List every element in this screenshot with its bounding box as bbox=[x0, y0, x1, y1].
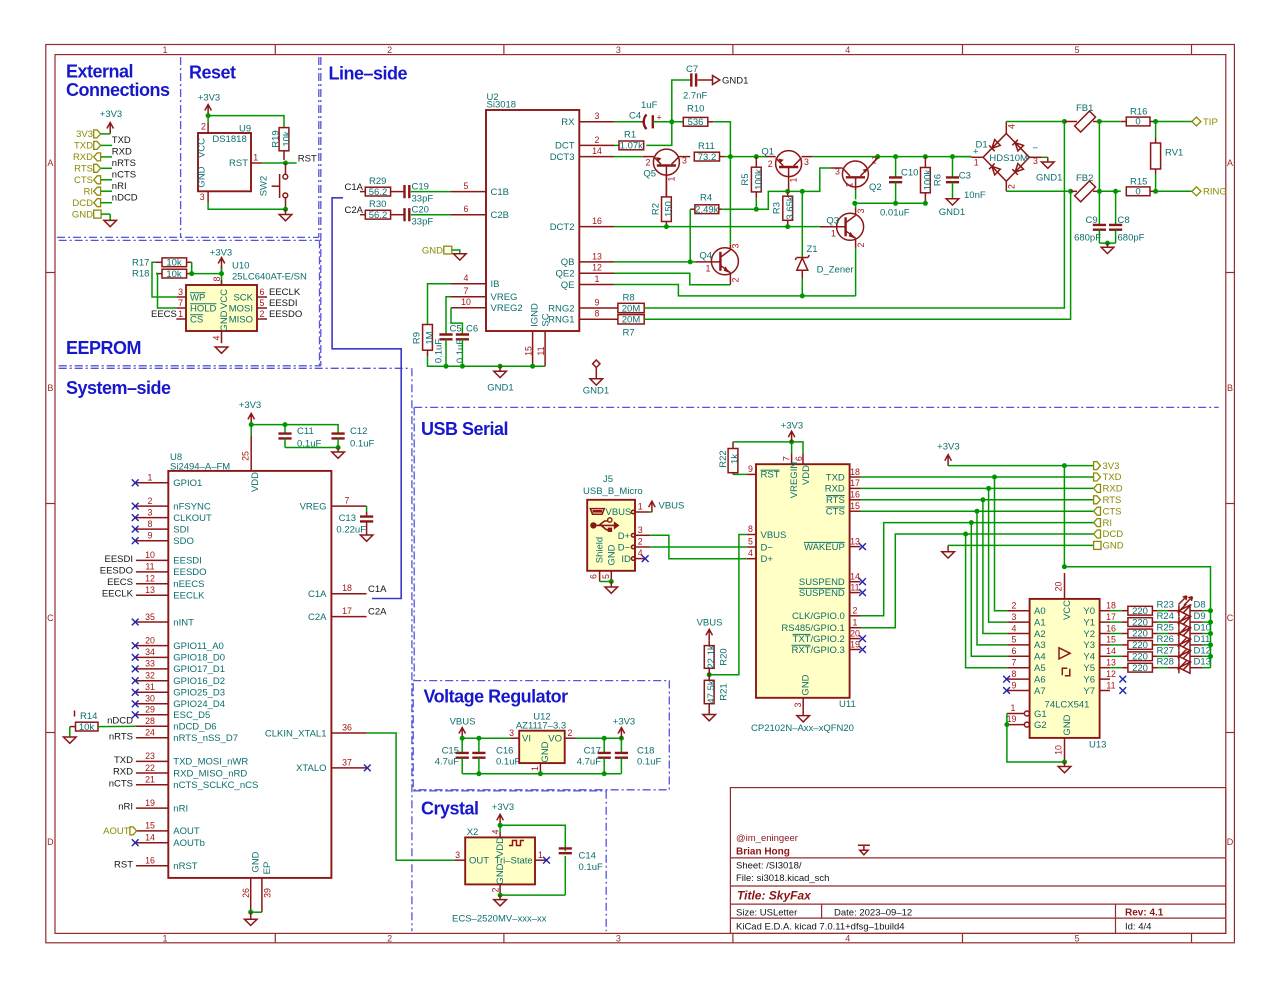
wire U8 VREG to C13 bbox=[366, 506, 368, 512]
svg-text:Q5: Q5 bbox=[643, 169, 656, 180]
svg-text:TXD: TXD bbox=[74, 141, 93, 152]
svg-text:RXD: RXD bbox=[113, 767, 133, 778]
svg-text:3: 3 bbox=[638, 525, 643, 535]
svg-text:RI: RI bbox=[1103, 518, 1113, 529]
svg-text:Q4: Q4 bbox=[699, 251, 712, 262]
capacitor C7 2.7nF bbox=[683, 64, 713, 102]
svg-text:Shield: Shield bbox=[595, 537, 606, 563]
wire bundle drop to U13 bbox=[966, 534, 1008, 668]
power +3V3 (external connections) bbox=[100, 109, 122, 134]
svg-text:G1: G1 bbox=[1034, 709, 1047, 720]
wire U2 IB to R9 bbox=[428, 284, 452, 325]
wire Q1 collector to Q2/C10 row bbox=[812, 156, 971, 158]
wire U2 DCT3 main row bbox=[614, 156, 642, 158]
U8 pin 8 SDI bbox=[132, 519, 189, 536]
wire VBUS rail to U12 VI bbox=[462, 738, 510, 753]
svg-text:SCK: SCK bbox=[233, 292, 253, 303]
svg-text:7: 7 bbox=[464, 286, 469, 296]
U8 pin 37 XTALO bbox=[296, 757, 371, 774]
wire U2 DCT to R1 bbox=[614, 144, 619, 146]
svg-text:EESDO: EESDO bbox=[100, 565, 133, 576]
svg-text:DS1818: DS1818 bbox=[212, 134, 246, 145]
svg-text:GND: GND bbox=[495, 863, 506, 884]
svg-text:GND: GND bbox=[251, 851, 262, 872]
svg-text:R20: R20 bbox=[719, 648, 730, 665]
svg-text:536: 536 bbox=[688, 117, 704, 128]
svg-text:GPIO17_D1: GPIO17_D1 bbox=[173, 664, 225, 675]
U8 pin 7 VREG bbox=[300, 496, 367, 513]
wire R8 to TIP rail bbox=[644, 122, 1064, 309]
U8 pin 34 GPIO18_D0 bbox=[132, 647, 225, 664]
svg-text:R9: R9 bbox=[412, 332, 423, 344]
svg-text:Y3: Y3 bbox=[1083, 640, 1095, 651]
resistor R24 220 bbox=[1110, 611, 1174, 628]
svg-text:TXD: TXD bbox=[826, 472, 845, 483]
svg-text:File: si3018.kicad_sch: File: si3018.kicad_sch bbox=[736, 873, 829, 884]
wire C9/C8 to ground bbox=[1099, 242, 1115, 244]
svg-text:+3V3: +3V3 bbox=[239, 400, 261, 411]
svg-text:0.1uF: 0.1uF bbox=[637, 757, 661, 768]
svg-text:6: 6 bbox=[794, 456, 804, 461]
svg-text:15: 15 bbox=[1106, 635, 1116, 645]
svg-text:R25: R25 bbox=[1157, 623, 1174, 634]
svg-text:VCC: VCC bbox=[219, 289, 230, 309]
wire from label TXD bbox=[101, 144, 112, 146]
svg-text:Q1: Q1 bbox=[761, 147, 774, 158]
svg-text:1: 1 bbox=[974, 158, 979, 168]
svg-text:nDCD: nDCD bbox=[107, 716, 133, 727]
wire U2 VREG to C5 bbox=[446, 297, 451, 335]
svg-text:nINT: nINT bbox=[173, 617, 194, 628]
svg-text:WP: WP bbox=[190, 292, 205, 303]
svg-text:Connections: Connections bbox=[66, 80, 170, 100]
svg-text:7: 7 bbox=[781, 456, 791, 461]
svg-text:RXD: RXD bbox=[825, 484, 845, 495]
wire R15 to RING bbox=[1156, 190, 1192, 192]
svg-text:Z1: Z1 bbox=[807, 244, 818, 255]
resistor R8 20M bbox=[614, 292, 644, 314]
U8 pin 17 C2A bbox=[308, 606, 387, 623]
svg-text:R30: R30 bbox=[369, 199, 386, 210]
svg-text:5: 5 bbox=[1074, 45, 1079, 55]
svg-text:D12: D12 bbox=[1194, 645, 1211, 656]
power +3V3 (crystal) bbox=[492, 802, 514, 825]
svg-text:5: 5 bbox=[748, 537, 753, 547]
hierarchical label GND (line-side) bbox=[422, 245, 452, 256]
svg-text:nRTS: nRTS bbox=[109, 731, 133, 742]
IC U12 AZ1117-3.3 bbox=[509, 712, 576, 774]
svg-text:1: 1 bbox=[178, 309, 183, 319]
svg-text:A0: A0 bbox=[1034, 606, 1046, 617]
svg-text:EESDI: EESDI bbox=[269, 298, 298, 309]
svg-text:C3: C3 bbox=[959, 171, 971, 182]
svg-text:GND: GND bbox=[1062, 714, 1073, 735]
capacitor C13 0.22uF bbox=[336, 512, 373, 536]
svg-text:10k: 10k bbox=[79, 722, 95, 733]
svg-text:1: 1 bbox=[162, 45, 167, 55]
crystal oscillator X2 ECS-2520MV bbox=[452, 827, 550, 925]
wire D11 cathode to rail bbox=[1203, 644, 1211, 646]
wire C11/C12 bottoms bbox=[285, 447, 338, 449]
wire +3V3 to VDD/C11/C12 bbox=[251, 425, 338, 436]
svg-text:2: 2 bbox=[595, 135, 600, 145]
svg-text:Sheet: /SI3018/: Sheet: /SI3018/ bbox=[736, 861, 802, 872]
ground (reset) bbox=[279, 209, 292, 221]
svg-text:EECLK: EECLK bbox=[102, 589, 134, 600]
wire Q3 collector up bbox=[855, 203, 857, 207]
U8 pin 29 ESC_D5 bbox=[132, 705, 210, 722]
svg-text:16: 16 bbox=[1106, 623, 1116, 633]
svg-text:1: 1 bbox=[706, 264, 711, 274]
resistor R2 150 bbox=[651, 176, 675, 227]
svg-text:C2A: C2A bbox=[368, 607, 387, 618]
svg-text:4: 4 bbox=[491, 829, 501, 834]
hierarchical label TXD (usb serial) bbox=[1094, 472, 1122, 483]
svg-text:2: 2 bbox=[1007, 184, 1017, 189]
svg-text:R26: R26 bbox=[1157, 634, 1174, 645]
resistor R17 10k bbox=[132, 257, 192, 268]
wire +3V3 to U9/R19 bbox=[208, 116, 284, 128]
svg-text:1: 1 bbox=[530, 766, 540, 771]
svg-text:GPIO25_D3: GPIO25_D3 bbox=[173, 688, 225, 699]
wire C3 row to D1 + pin bbox=[953, 156, 972, 158]
capacitor C8 680pF bbox=[1109, 189, 1145, 244]
svg-text:Y5: Y5 bbox=[1083, 663, 1095, 674]
svg-text:2.7nF: 2.7nF bbox=[683, 91, 707, 102]
wire R24 to D9 bbox=[1158, 621, 1169, 623]
svg-text:9: 9 bbox=[1012, 680, 1017, 690]
svg-text:RST: RST bbox=[298, 153, 317, 164]
svg-text:CP2102N–Axx–xQFN20: CP2102N–Axx–xQFN20 bbox=[751, 723, 854, 734]
wire G1/G2 to GND pin 10 bbox=[1007, 714, 1065, 763]
U8 pin 12 nEECS bbox=[107, 574, 204, 591]
svg-text:12: 12 bbox=[1106, 669, 1116, 679]
svg-text:TXD: TXD bbox=[114, 755, 133, 766]
svg-text:31: 31 bbox=[145, 682, 155, 692]
wire R4 right to R5/jog bbox=[722, 168, 831, 209]
wire R26 to D11 bbox=[1158, 644, 1169, 646]
power +3V3 (label row) bbox=[937, 441, 959, 465]
svg-text:10k: 10k bbox=[166, 269, 182, 280]
wire J5 D+ to U11 D+ bbox=[650, 535, 747, 558]
svg-text:3: 3 bbox=[595, 111, 600, 121]
ground (GND label) bbox=[454, 254, 467, 260]
svg-text:0.1uF: 0.1uF bbox=[350, 439, 374, 450]
wire R7 to RING rail bbox=[644, 191, 1070, 319]
wire D10 cathode to rail bbox=[1203, 633, 1211, 635]
svg-text:nRI: nRI bbox=[112, 181, 127, 192]
svg-text:EECLK: EECLK bbox=[173, 591, 205, 602]
svg-text:15: 15 bbox=[850, 501, 860, 511]
svg-text:TXT/GPIO.2: TXT/GPIO.2 bbox=[793, 634, 845, 645]
svg-text:WAKEUP: WAKEUP bbox=[804, 542, 845, 553]
U8 pin 3 CLKOUT bbox=[132, 507, 212, 524]
resistor R20 22.1k bbox=[704, 640, 729, 680]
svg-text:680pF: 680pF bbox=[1118, 233, 1145, 244]
resistor R5 100k bbox=[740, 157, 765, 198]
ground (C12) bbox=[332, 448, 345, 459]
wire U2 RX to C4 bbox=[614, 121, 641, 123]
U8 pin 20 GPIO11_A0 bbox=[132, 635, 224, 652]
svg-text:G2: G2 bbox=[1034, 720, 1047, 731]
svg-text:C11: C11 bbox=[297, 426, 314, 437]
svg-text:Y4: Y4 bbox=[1083, 652, 1095, 663]
svg-text:D: D bbox=[1227, 837, 1234, 847]
svg-text:CTS: CTS bbox=[1103, 506, 1122, 517]
svg-text:RXD_MISO_nRD: RXD_MISO_nRD bbox=[173, 768, 247, 779]
wire FB1 junction down to C9 bbox=[1098, 122, 1100, 225]
U8 pin 22 RXD_MISO_nRD bbox=[113, 763, 247, 780]
U8 pin 36 CLKIN_XTAL1 bbox=[265, 722, 367, 739]
svg-text:2: 2 bbox=[853, 606, 858, 616]
svg-text:0.1uF: 0.1uF bbox=[434, 339, 445, 363]
svg-text:−: − bbox=[1033, 143, 1039, 154]
svg-text:C1B: C1B bbox=[491, 187, 509, 198]
svg-text:16: 16 bbox=[592, 216, 602, 226]
svg-text:1k: 1k bbox=[730, 454, 741, 464]
wire J5 D- to U11 D- bbox=[650, 546, 747, 548]
wire RXD row bbox=[861, 487, 1094, 489]
hierarchical label DCD (external) bbox=[72, 198, 100, 209]
svg-text:GND: GND bbox=[801, 674, 812, 695]
U8 pin 11 EESDO bbox=[100, 562, 207, 579]
svg-text:3: 3 bbox=[1012, 612, 1017, 622]
svg-text:VBUS: VBUS bbox=[450, 717, 476, 728]
wire from label RI bbox=[101, 190, 112, 192]
svg-text:AZ1117–3.3: AZ1117–3.3 bbox=[516, 721, 566, 732]
wire R23 to D8 bbox=[1158, 610, 1169, 612]
svg-text:GND: GND bbox=[607, 544, 618, 565]
IC U8 Si2494-A-FM bbox=[100, 436, 387, 913]
resistor R10 536 bbox=[683, 104, 713, 129]
wire D9 cathode to rail bbox=[1203, 621, 1211, 623]
svg-text:GPIO24_D4: GPIO24_D4 bbox=[173, 699, 225, 710]
svg-text:3: 3 bbox=[731, 243, 741, 248]
ground (C13) bbox=[360, 535, 373, 541]
wire U9 GND to SW2 bbox=[208, 203, 285, 210]
svg-text:11: 11 bbox=[145, 562, 154, 572]
wire from label 3V3 bbox=[101, 133, 110, 135]
svg-text:Size: USLetter: Size: USLetter bbox=[736, 908, 797, 919]
svg-text:RX: RX bbox=[561, 117, 575, 128]
svg-text:RXD: RXD bbox=[112, 147, 132, 158]
wire D1 top to FB1 bbox=[1006, 121, 1064, 123]
svg-text:2: 2 bbox=[387, 934, 392, 944]
svg-text:C13: C13 bbox=[339, 513, 356, 524]
svg-text:D8: D8 bbox=[1194, 600, 1206, 611]
svg-text:GPIO11_A0: GPIO11_A0 bbox=[173, 641, 224, 652]
U8 pin 9 SDO bbox=[132, 531, 194, 548]
U8 pin 28 nDCD_D6 bbox=[136, 716, 217, 733]
svg-text:GND: GND bbox=[219, 310, 230, 331]
ground (U8) bbox=[244, 912, 257, 925]
svg-text:R23: R23 bbox=[1157, 600, 1174, 611]
svg-text:DCD: DCD bbox=[1103, 529, 1124, 540]
hierarchical label RI (external) bbox=[84, 186, 101, 197]
resistor R19 10k bbox=[271, 128, 293, 160]
svg-text:3V3: 3V3 bbox=[1103, 461, 1120, 472]
svg-text:C4: C4 bbox=[629, 111, 641, 122]
wire from label GND bbox=[101, 213, 110, 215]
wire CTS row bbox=[861, 510, 1094, 512]
wire U2 QE row to Z1/Q3 emitter bbox=[614, 285, 856, 296]
svg-text:HDS10M: HDS10M bbox=[989, 153, 1028, 164]
U8 pin 33 GPIO17_D1 bbox=[132, 659, 225, 676]
svg-text:QB: QB bbox=[561, 257, 575, 268]
ground (R14) bbox=[64, 727, 77, 744]
svg-text:Si2494–A–FM: Si2494–A–FM bbox=[170, 462, 230, 473]
svg-text:CTS: CTS bbox=[826, 507, 845, 518]
hierarchical label CTS (usb serial) bbox=[1094, 506, 1122, 517]
svg-text:RING: RING bbox=[1203, 187, 1227, 198]
capacitor C6 0.1uF bbox=[455, 324, 478, 367]
capacitor C4 1uF polarized bbox=[629, 100, 662, 129]
svg-text:VREG: VREG bbox=[491, 292, 518, 303]
resistor R28 220 bbox=[1110, 657, 1174, 674]
ground (C9/C8) bbox=[1101, 243, 1114, 254]
svg-text:1: 1 bbox=[789, 177, 799, 182]
wire CLKIN_XTAL1 to crystal bbox=[367, 733, 455, 860]
svg-text:VBUS: VBUS bbox=[606, 507, 632, 518]
svg-text:R1: R1 bbox=[624, 130, 636, 141]
svg-text:9: 9 bbox=[595, 297, 600, 307]
capacitor C11 0.1uF bbox=[278, 425, 321, 450]
svg-text:10: 10 bbox=[1054, 745, 1064, 755]
svg-text:22.1k: 22.1k bbox=[706, 645, 717, 668]
svg-text:GPIO18_D0: GPIO18_D0 bbox=[173, 653, 225, 664]
diode Z1 D_Zener bbox=[795, 244, 853, 278]
svg-text:RS485/GPIO.1: RS485/GPIO.1 bbox=[781, 623, 844, 634]
svg-text:0.01uF: 0.01uF bbox=[880, 207, 910, 218]
svg-text:11: 11 bbox=[1106, 680, 1115, 690]
svg-text:1: 1 bbox=[638, 502, 643, 512]
svg-text:Y0: Y0 bbox=[1083, 606, 1095, 617]
wire bundle drop to U13 bbox=[977, 511, 1007, 645]
hierarchical label RTS (usb serial) bbox=[1094, 495, 1122, 506]
svg-text:J5: J5 bbox=[603, 474, 613, 485]
hierarchical label TIP bbox=[1192, 117, 1218, 128]
svg-text:100k: 100k bbox=[754, 169, 765, 190]
svg-text:4: 4 bbox=[748, 548, 753, 558]
title block bbox=[730, 788, 1225, 934]
ground GND1 (D1) bbox=[1036, 157, 1062, 183]
svg-text:EECS: EECS bbox=[151, 309, 177, 320]
power +3V3 (eeprom) bbox=[210, 247, 232, 273]
wire U8 GND/EP to ground bbox=[251, 911, 262, 913]
wire +3V3 to X2 VDD and C14 bbox=[500, 825, 565, 851]
svg-text:23: 23 bbox=[145, 751, 155, 761]
svg-text:C9: C9 bbox=[1086, 215, 1098, 226]
capacitor C17 4.7uF bbox=[577, 738, 611, 774]
svg-text:12: 12 bbox=[592, 263, 602, 273]
svg-text:1: 1 bbox=[538, 850, 543, 860]
svg-text:RTS: RTS bbox=[826, 495, 845, 506]
svg-text:26: 26 bbox=[241, 888, 251, 898]
svg-text:680pF: 680pF bbox=[1074, 233, 1101, 244]
svg-text:3: 3 bbox=[856, 208, 866, 213]
hierarchical label CTS (external) bbox=[74, 175, 101, 186]
wire C20 to U2 pin6 bbox=[411, 214, 451, 216]
svg-text:10k: 10k bbox=[166, 258, 182, 269]
hierarchical label 3V3 (external) bbox=[76, 129, 101, 140]
svg-text:R10: R10 bbox=[687, 104, 704, 115]
svg-text:RXT/GPIO.3: RXT/GPIO.3 bbox=[791, 645, 844, 656]
svg-text:A4: A4 bbox=[1034, 652, 1046, 663]
wire U2 VREG2 to C6 bbox=[451, 308, 462, 335]
U8 pin 10 EESDI bbox=[104, 550, 201, 567]
LED D11 bbox=[1168, 634, 1210, 651]
svg-text:C15: C15 bbox=[442, 746, 459, 757]
svg-text:220: 220 bbox=[1132, 652, 1148, 663]
U8 pin 1 GPIO1 bbox=[132, 473, 203, 490]
wire FB2 to R15 bbox=[1099, 190, 1120, 192]
svg-text:220: 220 bbox=[1132, 606, 1148, 617]
svg-text:220: 220 bbox=[1132, 640, 1148, 651]
svg-text:16: 16 bbox=[850, 490, 860, 500]
svg-text:8: 8 bbox=[212, 276, 222, 281]
blue annotation line linking C1A labels bbox=[332, 198, 401, 599]
svg-text:RV1: RV1 bbox=[1165, 148, 1183, 159]
svg-text:A2: A2 bbox=[1034, 629, 1046, 640]
svg-text:22: 22 bbox=[145, 763, 155, 773]
svg-text:SDO: SDO bbox=[173, 536, 194, 547]
IC U2 Si3018 bbox=[451, 92, 614, 366]
svg-text:DCD: DCD bbox=[72, 198, 93, 209]
wire D1 minus to GND1 bbox=[1042, 156, 1048, 158]
svg-text:R22: R22 bbox=[718, 450, 729, 467]
svg-text:20: 20 bbox=[850, 628, 860, 638]
svg-text:1: 1 bbox=[667, 176, 677, 181]
svg-text:RXD: RXD bbox=[73, 152, 93, 163]
svg-text:13: 13 bbox=[850, 536, 860, 546]
ground (J5) bbox=[605, 582, 618, 594]
hierarchical label RING bbox=[1192, 187, 1227, 198]
svg-text:System–side: System–side bbox=[66, 378, 171, 398]
wire Q3 emitter down to QE row bbox=[855, 248, 857, 296]
svg-text:100k: 100k bbox=[923, 169, 934, 190]
svg-text:RNG2: RNG2 bbox=[548, 303, 574, 314]
svg-text:C19: C19 bbox=[412, 181, 429, 192]
U8 pin 13 EECLK bbox=[102, 585, 205, 602]
svg-text:Brian Hong: Brian Hong bbox=[736, 847, 790, 858]
svg-text:10: 10 bbox=[461, 297, 471, 307]
svg-text:13: 13 bbox=[1106, 658, 1116, 668]
wire R25 to D10 bbox=[1158, 633, 1169, 635]
svg-text:Y7: Y7 bbox=[1083, 686, 1095, 697]
svg-text:GND1: GND1 bbox=[583, 386, 609, 397]
ground (crystal) bbox=[494, 895, 507, 906]
wire R27 to D12 bbox=[1158, 655, 1169, 657]
svg-text:4.7uF: 4.7uF bbox=[577, 757, 601, 768]
svg-text:nDCD_D6: nDCD_D6 bbox=[173, 722, 216, 733]
resistor R25 220 bbox=[1110, 623, 1174, 640]
svg-text:RST: RST bbox=[114, 859, 133, 870]
transistor Q2 bbox=[831, 156, 882, 194]
svg-text:2: 2 bbox=[568, 728, 573, 738]
svg-text:AOUT: AOUT bbox=[173, 826, 200, 837]
svg-text:nRI: nRI bbox=[173, 803, 188, 814]
svg-text:150: 150 bbox=[664, 201, 675, 217]
svg-text:1uF: 1uF bbox=[641, 100, 658, 111]
svg-text:18: 18 bbox=[850, 467, 860, 477]
svg-text:2: 2 bbox=[201, 122, 206, 132]
ferrite bead FB1 bbox=[1064, 103, 1099, 132]
svg-text:GND1: GND1 bbox=[487, 383, 513, 394]
svg-text:19: 19 bbox=[850, 639, 860, 649]
svg-text:SDI: SDI bbox=[173, 524, 189, 535]
wire 3V3 row bbox=[948, 465, 1094, 467]
svg-text:56.2: 56.2 bbox=[369, 210, 388, 221]
